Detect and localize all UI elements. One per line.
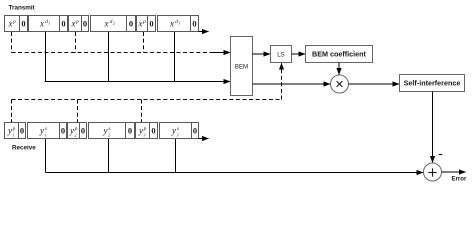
- svg-text:y: y: [103, 126, 108, 136]
- svg-text:2: 2: [75, 133, 77, 138]
- svg-text:x: x: [138, 19, 143, 29]
- svg-text:p: p: [74, 126, 78, 132]
- svg-text:p: p: [12, 126, 16, 132]
- svg-text:1: 1: [48, 21, 50, 26]
- svg-text:0: 0: [192, 19, 196, 29]
- svg-text:3: 3: [177, 133, 179, 138]
- svg-text:1: 1: [45, 133, 47, 138]
- svg-text:y: y: [39, 126, 44, 136]
- svg-text:0: 0: [83, 19, 87, 29]
- svg-text:0: 0: [61, 126, 65, 136]
- svg-text:s: s: [177, 126, 179, 132]
- svg-text:0: 0: [20, 126, 24, 136]
- svg-text:2: 2: [113, 21, 115, 26]
- svg-text:Self-interference: Self-interference: [404, 78, 461, 87]
- svg-text:Receive: Receive: [12, 145, 36, 152]
- svg-text:3: 3: [144, 133, 146, 138]
- svg-text:y: y: [7, 126, 12, 136]
- svg-text:0: 0: [21, 19, 25, 29]
- svg-text:Transmit: Transmit: [9, 5, 36, 12]
- svg-text:x: x: [39, 19, 44, 29]
- svg-text:p: p: [75, 19, 79, 25]
- svg-text:BEM coefficient: BEM coefficient: [312, 49, 367, 58]
- svg-text:y: y: [69, 126, 74, 136]
- svg-text:LS: LS: [277, 51, 284, 58]
- svg-text:x: x: [169, 19, 174, 29]
- svg-text:s: s: [45, 126, 47, 132]
- svg-text:0: 0: [193, 126, 197, 136]
- svg-text:s: s: [108, 126, 110, 132]
- svg-text:2: 2: [108, 133, 110, 138]
- svg-text:BEM: BEM: [235, 64, 248, 71]
- svg-text:0: 0: [128, 126, 132, 136]
- svg-text:3: 3: [178, 21, 180, 26]
- svg-text:0: 0: [151, 126, 155, 136]
- svg-text:0: 0: [81, 126, 85, 136]
- svg-text:x: x: [104, 19, 109, 29]
- svg-text:1: 1: [13, 133, 15, 138]
- svg-text:0: 0: [129, 19, 133, 29]
- svg-text:y: y: [171, 126, 176, 136]
- svg-text:0: 0: [61, 19, 65, 29]
- svg-text:p: p: [142, 19, 146, 25]
- svg-text:x: x: [8, 19, 13, 29]
- svg-text:y: y: [138, 126, 143, 136]
- svg-text:p: p: [12, 19, 16, 25]
- svg-text:0: 0: [149, 19, 153, 29]
- svg-text:p: p: [143, 126, 147, 132]
- svg-text:x: x: [71, 19, 76, 29]
- svg-text:Error: Error: [452, 175, 468, 182]
